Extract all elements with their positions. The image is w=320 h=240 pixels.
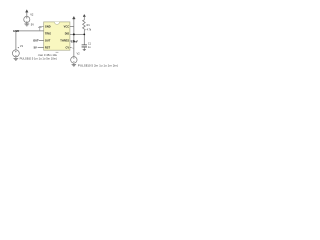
svg-text:THRES: THRES	[60, 39, 69, 43]
svg-text:V1: V1	[20, 44, 24, 48]
svg-text:OUT: OUT	[45, 39, 51, 43]
svg-text:PULSE(0 5 2m 1u 1u 1m 2m): PULSE(0 5 2m 1u 1u 1m 2m)	[78, 63, 118, 67]
svg-text:4.7k: 4.7k	[87, 28, 92, 31]
svg-text:TRIG: TRIG	[45, 32, 51, 36]
svg-text:V2: V2	[30, 13, 34, 17]
svg-text:RST: RST	[45, 45, 51, 49]
svg-text:DIS: DIS	[65, 32, 70, 36]
svg-text:OUT: OUT	[33, 39, 39, 43]
svg-text:GND: GND	[45, 25, 51, 29]
svg-text:1.5mF: 1.5mF	[71, 40, 78, 43]
svg-text:VCC: VCC	[64, 25, 70, 29]
svg-text:R1: R1	[87, 24, 91, 27]
svg-text:.tran 0 45m 10u: .tran 0 45m 10u	[38, 53, 58, 57]
svg-text:1u: 1u	[88, 46, 91, 49]
svg-text:5V: 5V	[31, 23, 34, 27]
svg-text:V2: V2	[77, 53, 81, 56]
svg-text:CV: CV	[65, 45, 69, 49]
svg-text:GND: GND	[13, 29, 19, 33]
svg-text:5V: 5V	[34, 45, 37, 49]
